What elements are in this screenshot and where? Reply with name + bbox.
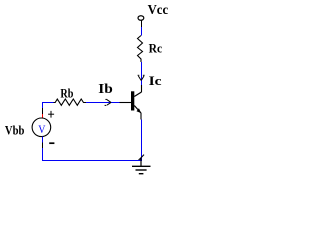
pin collector lead xyxy=(141,85,143,92)
pin Vcc terminal lead xyxy=(141,20,143,27)
pin base lead xyxy=(120,102,132,104)
wire V source bottom blue stub xyxy=(42,136,44,142)
wire left vertical down from corner xyxy=(42,102,44,108)
svg-text:Rb: Rb xyxy=(60,85,73,100)
source V1 Vbb xyxy=(32,111,54,143)
pin emitter lead with arrow xyxy=(134,106,141,114)
wire base net: Vbb corner to Rb xyxy=(42,102,54,104)
svg-text:Rc: Rc xyxy=(149,40,163,55)
resistor R1 Rc xyxy=(138,36,143,63)
wire Rc to transistor collector xyxy=(141,62,143,85)
svg-text:Ic: Ic xyxy=(149,73,162,88)
transistor Q1 xyxy=(120,85,142,120)
pin V source top red stub xyxy=(42,114,44,118)
base bar xyxy=(131,91,134,110)
wire bottom rail xyxy=(42,160,142,162)
wire Vcc to Rc xyxy=(141,27,143,36)
plus sign xyxy=(48,113,54,115)
wire emitter to rail xyxy=(141,120,143,161)
svg-text:V: V xyxy=(38,122,45,136)
arrow Ic (current annotation) xyxy=(138,75,145,80)
arrow Ib (current annotation) xyxy=(105,99,111,105)
svg-text:Vcc: Vcc xyxy=(148,2,169,17)
pin V source bottom lead xyxy=(42,143,44,149)
wire Rb to base pin xyxy=(86,102,120,104)
wire left vertical to bottom rail xyxy=(42,148,44,161)
svg-text:Vbb: Vbb xyxy=(5,123,25,138)
ground xyxy=(132,155,151,174)
resistor R2 Rb xyxy=(54,99,87,105)
node Vcc terminal xyxy=(138,16,144,21)
minus sign xyxy=(49,142,54,144)
pin V source top lead xyxy=(42,108,44,114)
svg-text:Ib: Ib xyxy=(98,82,113,97)
